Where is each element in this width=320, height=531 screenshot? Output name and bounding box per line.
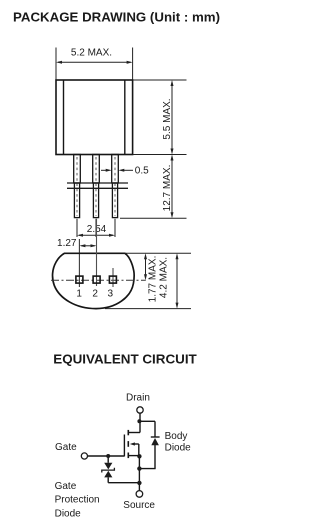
svg-text:12.7 MAX.: 12.7 MAX. [162,165,173,212]
svg-text:5.2 MAX.: 5.2 MAX. [71,47,112,58]
svg-text:4.2 MAX.: 4.2 MAX. [159,257,170,298]
svg-text:5.5 MAX.: 5.5 MAX. [162,98,173,139]
svg-text:3: 3 [108,289,114,300]
svg-text:1.27: 1.27 [57,238,77,249]
svg-text:Gate: Gate [55,481,77,492]
svg-text:Body: Body [165,431,188,442]
svg-text:0.5: 0.5 [135,166,149,177]
svg-text:1.77 MAX.: 1.77 MAX. [147,256,158,303]
svg-text:1: 1 [76,289,82,300]
svg-text:Source: Source [123,500,155,511]
svg-text:Protection: Protection [55,495,100,506]
svg-text:EQUIVALENT CIRCUIT: EQUIVALENT CIRCUIT [53,351,197,366]
svg-text:Gate: Gate [55,442,77,453]
svg-text:Diode: Diode [165,442,192,453]
svg-text:PACKAGE DRAWING (Unit : mm): PACKAGE DRAWING (Unit : mm) [13,10,220,25]
svg-text:Diode: Diode [55,509,82,520]
svg-text:Drain: Drain [126,392,150,403]
svg-text:2: 2 [92,289,98,300]
